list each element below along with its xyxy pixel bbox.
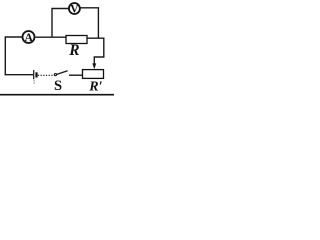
wire battery to switch (dotted): [38, 74, 54, 76]
battery cell short thick plate: [35, 72, 37, 77]
wire left vertical: [4, 37, 6, 75]
svg-text:R: R: [68, 42, 79, 59]
switch S pivot: [54, 74, 56, 76]
wire rheostat left to switch contact: [69, 74, 83, 76]
svg-text:A: A: [24, 32, 33, 44]
scan artifact dots below battery: [34, 80, 35, 84]
resistor R box: [66, 36, 87, 44]
rheostat R' box: [83, 70, 104, 79]
switch S blade: [56, 71, 68, 75]
bottom rule line: [0, 94, 114, 96]
wire ammeter to resistor R: [35, 36, 66, 38]
svg-text:S: S: [54, 78, 62, 94]
svg-text:V: V: [70, 3, 79, 15]
voltmeter V1: [69, 3, 80, 15]
wire top-left horizontal to ammeter: [5, 36, 22, 38]
wire voltmeter right branch: [81, 8, 99, 38]
wire voltmeter left branch: [52, 9, 68, 38]
ammeter A1: [23, 31, 35, 44]
wire bottom-left to battery: [5, 74, 33, 76]
rheostat slider arrow: [92, 63, 96, 69]
wire resistor right to right-side vertical: [87, 38, 104, 64]
svg-text:R′: R′: [88, 80, 102, 95]
battery cell long plate: [33, 70, 35, 79]
